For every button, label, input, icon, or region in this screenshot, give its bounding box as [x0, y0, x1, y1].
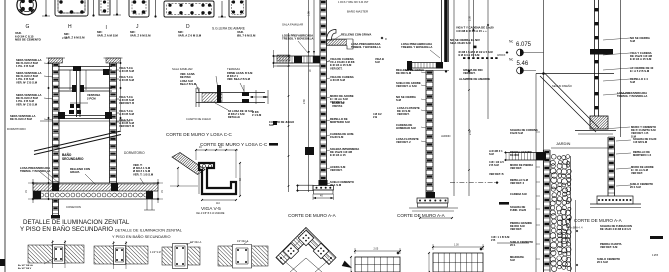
svg-text:S.M: S.M: [375, 60, 380, 64]
svg-text:E= A 5 Z B S.M: E= A 5 Z B S.M: [630, 69, 650, 73]
svg-text:E Ø 1/4 A 15 S.M: E Ø 1/4 A 15 S.M: [459, 53, 481, 57]
svg-text:CONEXION: CONEXION: [66, 205, 81, 209]
svg-text:VER DET.: VER DET.: [330, 66, 343, 70]
svg-text:2.55: 2.55: [469, 130, 472, 135]
svg-text:MORTERO S.M: MORTERO S.M: [330, 120, 350, 124]
svg-text:S.M: S.M: [510, 258, 515, 262]
svg-text:110: 110: [216, 202, 220, 205]
svg-text:VER DET. B: VER DET. B: [119, 124, 134, 128]
svg-text:VER DET. B: VER DET. B: [119, 101, 134, 105]
svg-text:VER DET.: VER DET.: [397, 112, 410, 116]
svg-text:A 3/4 B S.M: A 3/4 B S.M: [119, 69, 135, 73]
svg-text:CORTE DE MURO A-A: CORTE DE MURO A-A: [288, 213, 337, 218]
svg-text:CORTE DE MURO Y LOSA C-C: CORTE DE MURO Y LOSA C-C: [200, 142, 268, 147]
svg-text:S.M: S.M: [489, 152, 494, 156]
svg-text:S.M: S.M: [396, 98, 402, 102]
svg-text:E Ø 1/4 A 15: E Ø 1/4 A 15: [330, 153, 346, 157]
svg-text:VER. T: 1 B S.M: VER. T: 1 B S.M: [133, 172, 154, 176]
svg-text:A 3/4 B S.M: A 3/4 B S.M: [330, 78, 346, 82]
svg-text:VER DET. 2: VER DET. 2: [396, 140, 411, 144]
svg-text:Z B S.M: Z B S.M: [489, 163, 499, 167]
svg-text:A 3/4 B S.M: A 3/4 B S.M: [119, 112, 135, 116]
svg-text:JARDIN: JARDIN: [441, 134, 450, 138]
svg-text:Ø8, 7 6 M S.M: Ø8, 7 6 M S.M: [237, 33, 256, 37]
svg-text:CORTE DE MURO A-A: CORTE DE MURO A-A: [397, 213, 446, 218]
svg-text:SALA FAMILIAR: SALA FAMILIAR: [282, 23, 303, 27]
svg-text:DE PISO: DE PISO: [180, 75, 191, 79]
svg-text:JARDIN: JARDIN: [556, 141, 571, 146]
svg-text:20:1 S.M: 20:1 S.M: [330, 183, 342, 187]
svg-text:SALA FAMILIAR: SALA FAMILIAR: [172, 67, 193, 71]
svg-text:CORTE DE MURO A-A: CORTE DE MURO A-A: [574, 218, 623, 223]
svg-text:1.05: 1.05: [308, 11, 311, 16]
svg-text:BAÑO MASTER: BAÑO MASTER: [347, 9, 368, 14]
svg-text:VISITAS: VISITAS: [332, 104, 342, 108]
svg-text:TREBOL Y BOVEDILLA: TREBOL Y BOVEDILLA: [617, 94, 647, 98]
svg-text:VER. Nº Z B S.M: VER. Nº Z B S.M: [16, 80, 38, 84]
svg-text:Z B: Z B: [491, 238, 495, 242]
svg-text:D: D: [186, 24, 190, 30]
svg-text:VER DET. B: VER DET. B: [489, 172, 504, 176]
svg-text:VAR. Z 6 M S.M: VAR. Z 6 M S.M: [64, 35, 85, 39]
svg-text:6.075: 6.075: [516, 42, 532, 48]
svg-text:TREBOL Y BOVEDILLA: TREBOL Y BOVEDILLA: [401, 45, 432, 49]
svg-text:A 3/4 B S.M: A 3/4 B S.M: [119, 78, 135, 82]
svg-text:VER DET.: VER DET.: [510, 166, 522, 170]
svg-text:2.05: 2.05: [374, 248, 379, 251]
svg-text:P-Sn BRA 4 .4: P-Sn BRA 4 .4: [567, 227, 583, 230]
svg-text:DORMITORIO: DORMITORIO: [124, 151, 145, 155]
svg-text:B= 1/2" DE LA: B= 1/2" DE LA: [18, 264, 33, 267]
svg-text:Y PISO EN BAÑO SECUNDARIO: Y PISO EN BAÑO SECUNDARIO: [112, 234, 171, 239]
svg-text:DE RIO S.M: DE RIO S.M: [396, 71, 412, 75]
svg-text:VER DET.: VER DET.: [510, 227, 522, 231]
svg-text:1 PG. Z B S.M: 1 PG. Z B S.M: [16, 64, 35, 68]
svg-text:2 PCM: 2 PCM: [87, 96, 96, 100]
svg-text:SECUNDARIO: SECUNDARIO: [62, 157, 84, 161]
svg-text:1/2" DE LA: 1/2" DE LA: [237, 240, 249, 243]
svg-text:VER DET. S.M: VER DET. S.M: [600, 245, 618, 249]
svg-text:DE RIO: DE RIO: [510, 153, 519, 157]
svg-text:1 RCS Y DBL NIV S.M JNT: 1 RCS Y DBL NIV S.M JNT: [338, 1, 369, 4]
svg-text:B= 1/2" DE V: B= 1/2" DE V: [18, 268, 32, 270]
svg-text:TERRAZA: TERRAZA: [227, 67, 240, 71]
svg-text:VER DET.: VER DET.: [330, 168, 343, 172]
svg-text:TREBOL Y BOVEDILLA: TREBOL Y BOVEDILLA: [282, 37, 313, 41]
svg-text:VER. B&A Z B S.M: VER. B&A Z B S.M: [227, 77, 251, 81]
svg-text:VIGA V-5: VIGA V-5: [201, 206, 221, 212]
svg-text:VER DET. A S.M: VER DET. A S.M: [396, 84, 417, 88]
svg-text:MORTERO 1:4: MORTERO 1:4: [633, 153, 652, 157]
svg-text:VER DET.: VER DET.: [631, 171, 643, 175]
svg-text:HUMEDAD S.M: HUMEDAD S.M: [396, 126, 416, 130]
svg-text:E Ø 1/4 A 15 S.M: E Ø 1/4 A 15 S.M: [630, 57, 652, 61]
svg-text:RELLENO CON GRAVA: RELLENO CON GRAVA: [341, 33, 371, 37]
svg-text:DETALLE: DETALLE: [228, 115, 240, 119]
svg-text:CEL # 4/8" B 6.10 VARAME: CEL # 4/8" B 6.10 VARAME: [196, 212, 225, 215]
svg-text:Nc: Nc: [509, 40, 513, 44]
svg-text:VAR. Z A M S.M: VAR. Z A M S.M: [97, 33, 118, 37]
svg-text:Y PISO EN BAÑO SECUNDARIO: Y PISO EN BAÑO SECUNDARIO: [20, 226, 113, 233]
svg-text:15x20 S.M: 15x20 S.M: [510, 131, 524, 135]
svg-text:4 1/2" S.M: 4 1/2" S.M: [150, 252, 161, 254]
svg-text:VAR. A Z 6 M S.M: VAR. A Z 6 M S.M: [178, 33, 202, 37]
svg-text:S.M: S.M: [630, 39, 636, 43]
svg-text:SE A 15x20 S.M: SE A 15x20 S.M: [450, 41, 471, 45]
svg-text:APROX: APROX: [497, 54, 506, 57]
svg-text:DETALLE DE ILUMINACION ZENITAL: DETALLE DE ILUMINACION ZENITAL: [23, 219, 130, 226]
svg-text:B&A Z B S.M: B&A Z B S.M: [180, 82, 197, 86]
svg-text:I: I: [106, 25, 107, 31]
svg-text:FUND. 15x20: FUND. 15x20: [510, 208, 527, 212]
svg-text:VER DET. 2: VER DET. 2: [510, 181, 525, 185]
svg-text:15x20 S.M: 15x20 S.M: [330, 135, 344, 139]
svg-text:Z 1 S.M: Z 1 S.M: [252, 113, 262, 117]
svg-text:DETALLE DE ILUMINACION ZENITAL: DETALLE DE ILUMINACION ZENITAL: [115, 228, 183, 233]
svg-text:CADENA S.M: CADENA S.M: [510, 192, 527, 196]
svg-text:4 Ø 3/8 E Ø 1/4 A 15 + +: 4 Ø 3/8 E Ø 1/4 A 15 + +: [456, 29, 487, 33]
svg-text:Z B: Z B: [373, 115, 377, 119]
svg-text:20:1 S.M: 20:1 S.M: [597, 260, 609, 264]
svg-text:VAR. Z 6 M S.M: VAR. Z 6 M S.M: [130, 33, 151, 37]
svg-text:TREBOL Y BOVEDILLA: TREBOL Y BOVEDILLA: [20, 169, 50, 173]
svg-text:S.N: S.N: [269, 123, 273, 127]
svg-text:4 Ø B: 4 Ø B: [652, 254, 659, 257]
svg-text:DORMITORIO: DORMITORIO: [7, 127, 26, 131]
svg-text:H: H: [68, 24, 72, 30]
svg-text:TREBOL Y BOVEDILLA: TREBOL Y BOVEDILLA: [351, 45, 381, 49]
svg-text:20:1: 20:1: [510, 243, 516, 247]
svg-text:20:1 S.M: 20:1 S.M: [630, 185, 642, 189]
svg-text:R: R: [385, 38, 387, 41]
svg-text:G: G: [26, 24, 30, 30]
svg-text:Nc: Nc: [509, 58, 513, 62]
svg-text:VER. Nº Z B S.M: VER. Nº Z B S.M: [16, 102, 38, 106]
svg-text:DE 15x20 4 Ø 3/8 E Ø 1/4: DE 15x20 4 Ø 3/8 E Ø 1/4: [600, 227, 631, 231]
svg-text:NOS DE CEMENTO: NOS DE CEMENTO: [15, 38, 42, 42]
svg-text:ALAMBRE DE AMARRE: ALAMBRE DE AMARRE: [459, 77, 490, 81]
svg-text:CUARTO DE JUEGO: CUARTO DE JUEGO: [186, 117, 211, 121]
svg-text:CORTE DE MURO Y LOSA C-C: CORTE DE MURO Y LOSA C-C: [166, 132, 233, 137]
svg-text:S.M: S.M: [630, 80, 636, 84]
svg-text:GRAVA: GRAVA: [70, 170, 80, 174]
svg-text:2.60: 2.60: [303, 99, 306, 104]
svg-text:4 Ø 3/8 S.M: 4 Ø 3/8 S.M: [633, 140, 648, 144]
svg-text:DE FLUJO Z B.M: DE FLUJO Z B.M: [10, 117, 33, 121]
svg-text:1/2" DE LA: 1/2" DE LA: [190, 241, 202, 244]
svg-text:5.46: 5.46: [517, 61, 529, 67]
svg-text:1.30: 1.30: [454, 244, 459, 247]
